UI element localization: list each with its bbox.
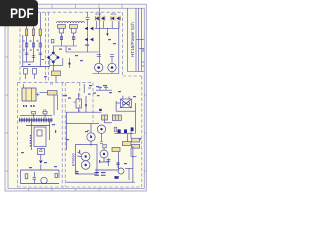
svg-text:HT16/Power Sch: HT16/Power Sch bbox=[130, 22, 135, 57]
svg-text:PDF: PDF bbox=[10, 5, 34, 21]
svg-text:A4: A4 bbox=[141, 48, 145, 52]
svg-text:DCM: DCM bbox=[111, 13, 116, 16]
svg-text:DCM: DCM bbox=[96, 13, 101, 16]
svg-text:BT8630: BT8630 bbox=[71, 153, 75, 166]
